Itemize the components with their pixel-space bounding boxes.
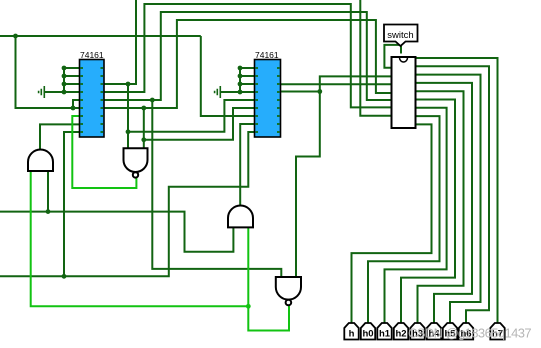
junction U1 QC branch (150, 98, 155, 103)
wire gate G4 output net (high) (248, 227, 289, 330)
wire chip2 row84 to switch pin3 (281, 83, 392, 85)
wire switch out row0 to pin h7 (416, 58, 498, 323)
junction U1 pin84 (62, 82, 67, 87)
counter U2 74161 (255, 50, 281, 137)
wire row92 branch to gate G4 right input (296, 92, 320, 278)
wire left net y211 (0, 212, 233, 252)
wire row84 branch to chip2 pin100 (128, 100, 255, 132)
junction U1 QA to U2 (126, 129, 131, 134)
junction U1 pin92 (62, 90, 67, 95)
wire gate G2 output to chip1 pin116 (high) (72, 116, 136, 188)
junction U1 pin76 (62, 74, 67, 79)
unused pin stubs chip2 (256, 68, 280, 132)
junction U2 pin68 (238, 66, 243, 71)
wire switch out row5 to pin h2 (401, 100, 455, 324)
svg-text:h2: h2 (395, 329, 406, 340)
output pin h3 (410, 323, 424, 340)
unused pin stubs chip1 (81, 68, 104, 132)
wire switch out row4 to pin h3 (416, 91, 464, 323)
wire gate G3 output to chip2 pin124 (240, 124, 254, 206)
wire switch label feed (384, 45, 401, 68)
junction G1 input net (46, 209, 51, 214)
wire high net to gate G1 input (31, 171, 249, 306)
wire chip1 pin132 down (64, 132, 80, 276)
junction G4 output net (246, 304, 251, 309)
junction U1 QD branch (141, 106, 146, 111)
wire chip1 row100 to switch pin5 (104, 12, 392, 100)
output pin h6 (459, 323, 473, 340)
svg-text:h: h (349, 329, 355, 340)
counter U1 74161 (80, 50, 105, 137)
ground G2 wire (220, 91, 255, 93)
svg-text:CSDN @g18365q1437: CSDN @g18365q1437 (408, 326, 531, 341)
output pin h5 (443, 323, 457, 340)
wire switch out row7 to pin h0 (368, 116, 440, 323)
output pin h0 (361, 323, 375, 340)
junction U1 QA branch (126, 82, 131, 87)
wire row84 branch to gate G2 input (127, 84, 129, 148)
wire jog chip1 pin100 (73, 100, 80, 108)
nand-gate G4 (276, 277, 301, 305)
junction U1 pin108 (71, 106, 76, 111)
svg-text:h1: h1 (379, 329, 391, 340)
wire row108 branch to chip2 pin108 (144, 108, 255, 140)
junction load net (62, 274, 67, 279)
switch U3 body (392, 57, 416, 128)
wire switch out row3 to pin h4 (416, 83, 473, 323)
svg-text:h0: h0 (362, 329, 373, 340)
output pin h2 (394, 323, 408, 340)
wire G1 pin column (64, 68, 80, 92)
and-gate G3 (228, 206, 253, 228)
wire vertical from junction to chip1 ENP row (16, 36, 80, 108)
junction U2 pin92 (238, 90, 243, 95)
wire chip1 row108 to switch pin4 (104, 20, 392, 108)
wire row108 branch to gate G2 input (143, 108, 145, 148)
junction U2 QB branch (317, 89, 322, 94)
svg-text:switch: switch (387, 30, 413, 41)
and-gate G1 (28, 150, 53, 171)
svg-text:74161: 74161 (255, 50, 279, 60)
wire chip1 row92 to switch pin6 (104, 4, 392, 107)
wire shared pin132 net bottom (0, 132, 255, 276)
wire net CLK/EN bus top-left horizontal (0, 35, 201, 37)
junction U2 pin84 (238, 82, 243, 87)
junction U1 QD to U2 (141, 137, 146, 142)
wire chip2 pin116 feed (201, 36, 255, 116)
wire row100 branch to gate G4 left input (152, 100, 281, 277)
wire chip2 row92 (281, 91, 320, 93)
junction U2 pin76 (238, 74, 243, 79)
ground G1 (39, 86, 45, 98)
ground G2 (215, 86, 221, 98)
wire switch out row6 to pin h1 (385, 108, 447, 323)
wire gate G1 dark input (47, 171, 49, 212)
wire switch out row1 to pin h6 (416, 66, 490, 323)
wire off-top to switch pin7 (360, 0, 391, 116)
nand-gate G2 (124, 148, 148, 177)
label bubble switch (384, 25, 418, 47)
wire switch out row2 to pin h5 (416, 75, 481, 323)
output pin h (344, 323, 358, 340)
svg-text:74161: 74161 (80, 50, 104, 60)
wire switch out row8 to pin h (352, 124, 432, 323)
ground G1 wire (44, 91, 80, 93)
output pin h1 (377, 323, 391, 340)
wire chip1 QD row84 up (104, 0, 136, 84)
output pin h7 (490, 323, 504, 340)
junction clk bus (13, 34, 18, 39)
wire gate G1 output to chip1 pin124 (40, 124, 80, 149)
wire G2 pin column (240, 68, 255, 92)
junction U1 pin68 (62, 66, 67, 71)
wire row92 branch to switch pin2 (320, 76, 392, 91)
output pin h4 (427, 323, 441, 340)
